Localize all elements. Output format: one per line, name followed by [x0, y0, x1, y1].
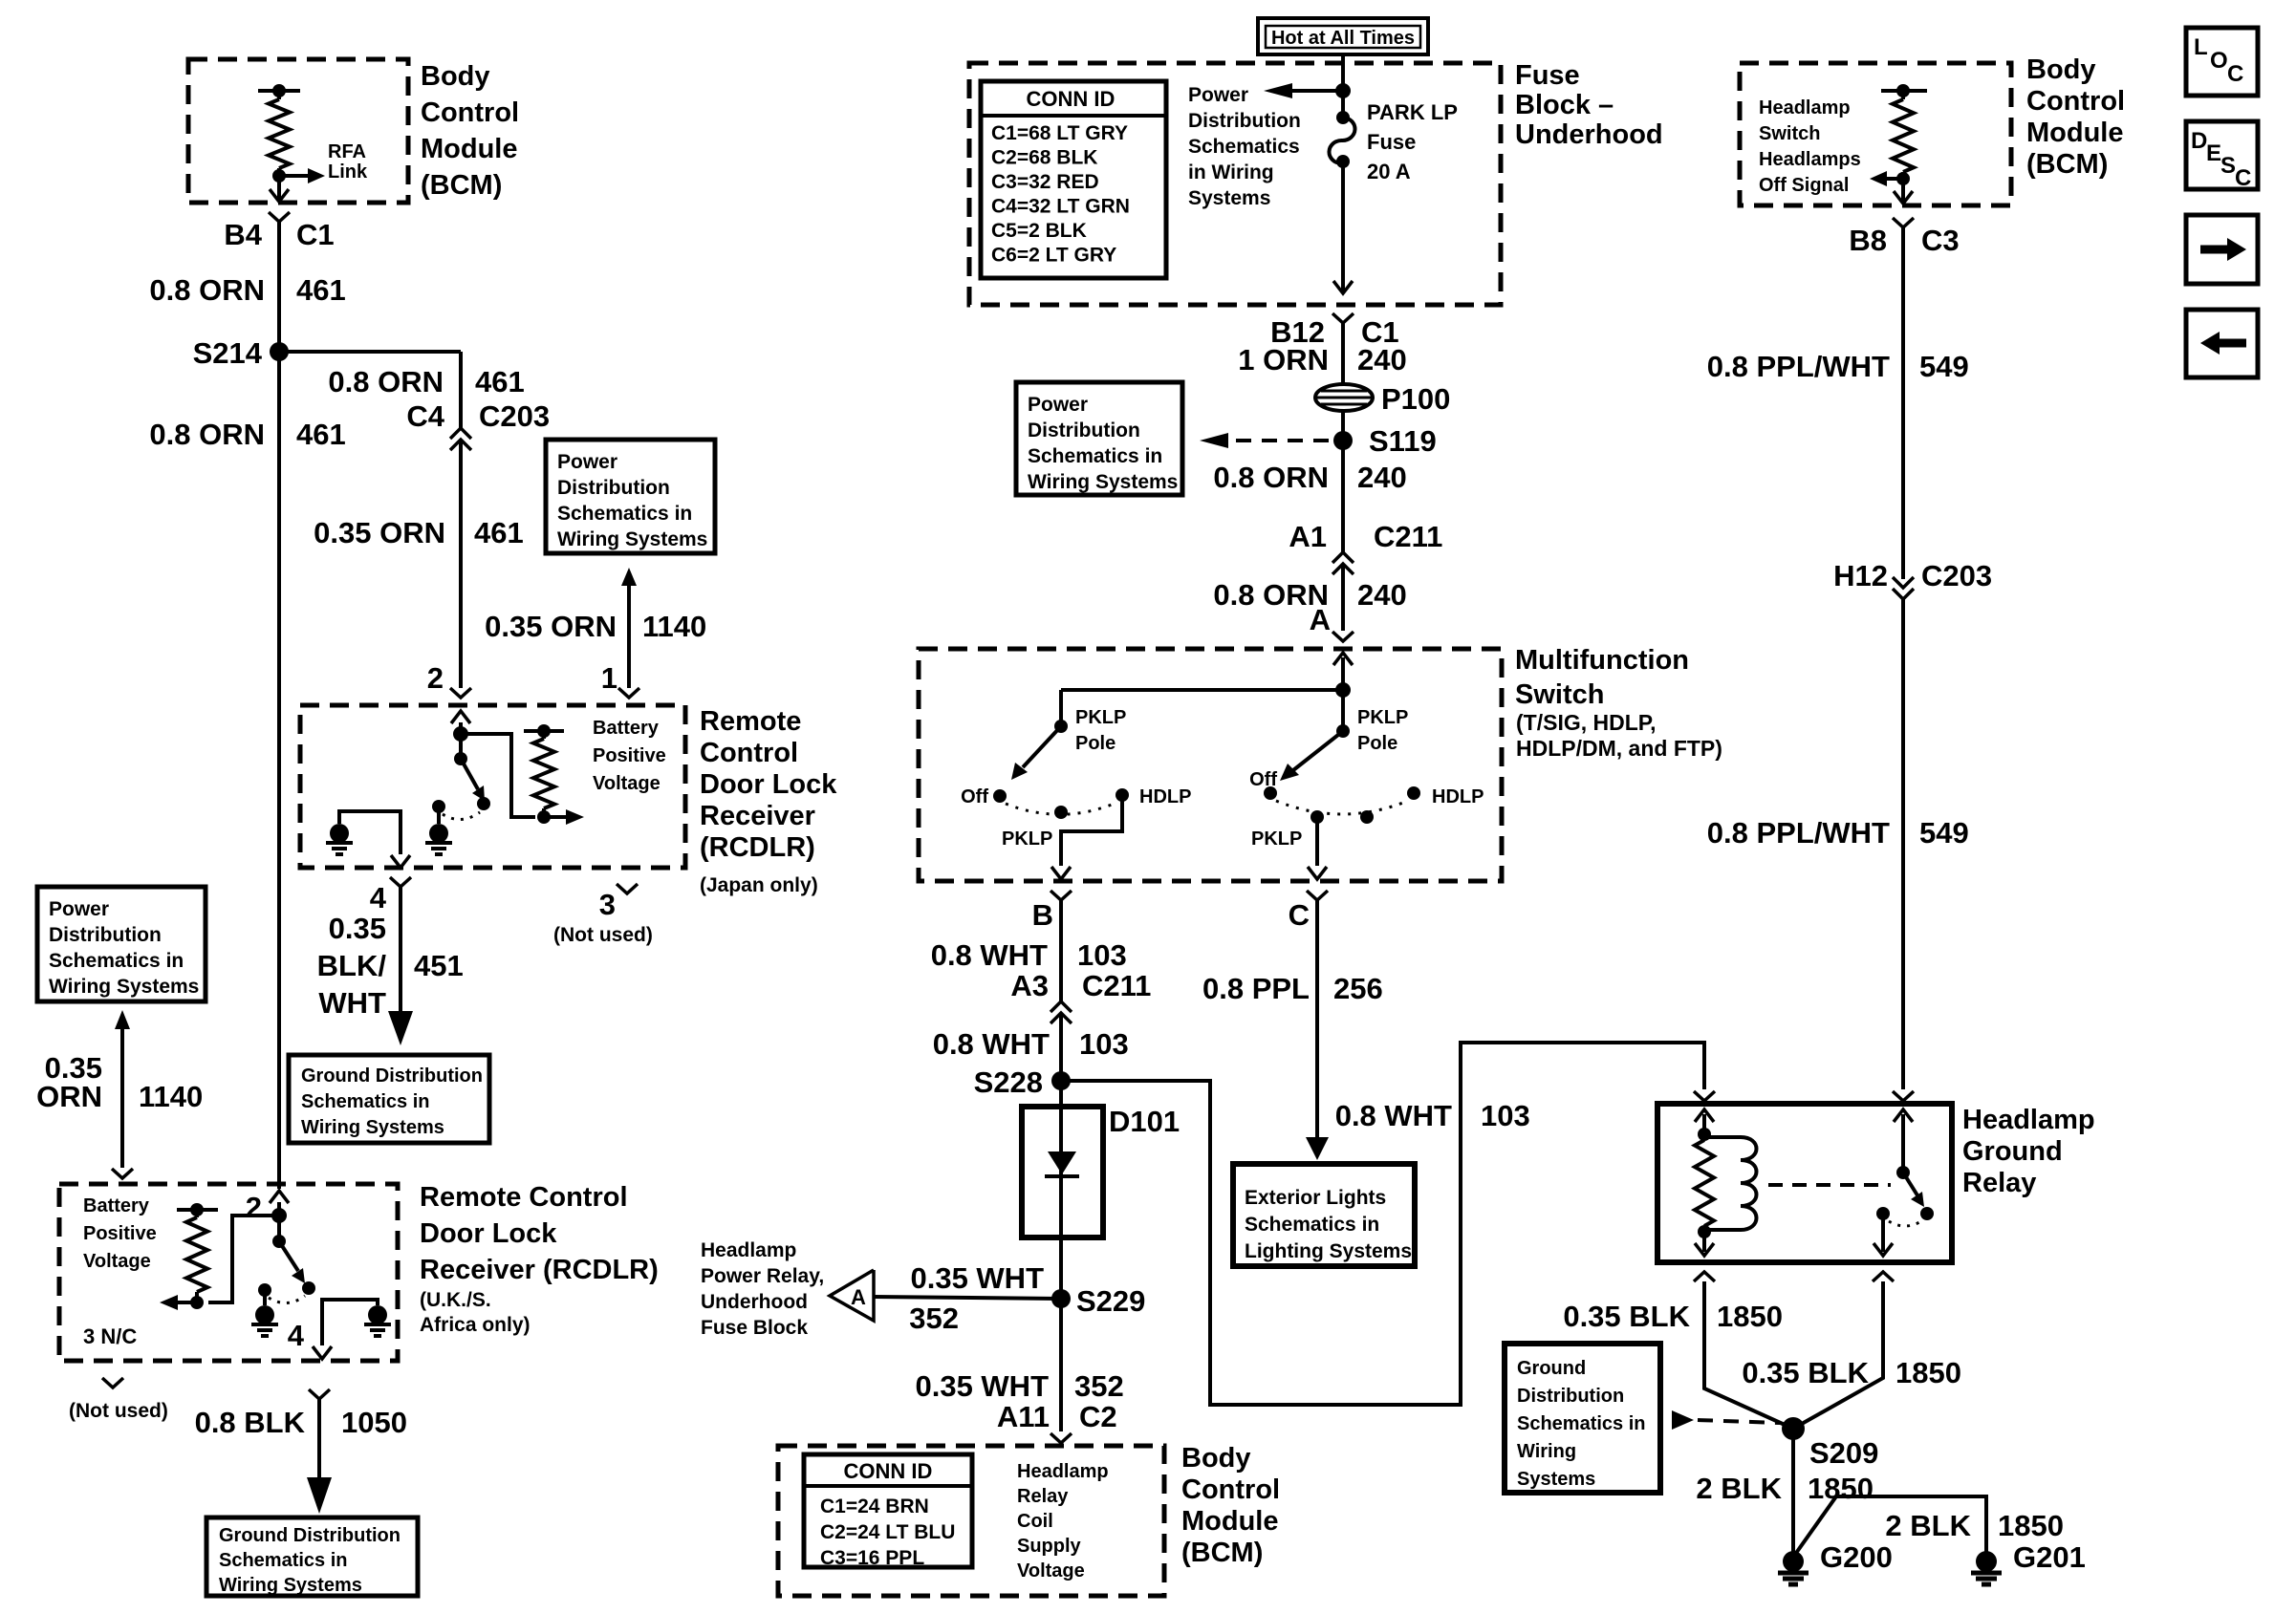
svg-text:C3=32 RED: C3=32 RED — [991, 171, 1099, 193]
arrow into ground note box (UK pin4) — [307, 1477, 332, 1514]
relay box: Headlamp Ground Relay — [1657, 1104, 1952, 1262]
node: RCDLR UK switch feed junction — [271, 1208, 287, 1223]
svg-text:0.8 PPL: 0.8 PPL — [1202, 972, 1310, 1005]
svg-text:0.8 ORN: 0.8 ORN — [149, 418, 265, 451]
svg-text:Power: Power — [1028, 394, 1088, 416]
arrow entry relay switch pin — [1894, 1109, 1913, 1122]
connector female at BCM A11/C2 — [1051, 1433, 1072, 1443]
svg-text:Wiring Systems: Wiring Systems — [49, 976, 199, 998]
contact: relay switch moving end — [1920, 1207, 1934, 1220]
node: multifunction feed junction — [1335, 682, 1351, 698]
svg-text:Distribution: Distribution — [557, 477, 670, 499]
svg-text:1850: 1850 — [1895, 1356, 1961, 1389]
node S119 splice — [1333, 431, 1353, 450]
svg-text:C6=2 LT GRY: C6=2 LT GRY — [991, 245, 1116, 267]
arrow into ground note box (Japan pin4) — [399, 887, 402, 1013]
contact mid travel (right) — [1360, 810, 1374, 824]
svg-text:C1: C1 — [296, 218, 335, 251]
wire: junction to resistor bottom rail — [461, 734, 535, 817]
svg-text:0.35 BLK: 0.35 BLK — [1563, 1300, 1690, 1333]
svg-text:Hot at All Times: Hot at All Times — [1271, 28, 1415, 49]
module box: Remote Control Door Lock Receiver RCDLR (Japan only) — [300, 705, 685, 868]
svg-text:Distribution: Distribution — [49, 924, 162, 946]
svg-text:G201: G201 — [2013, 1540, 2086, 1574]
svg-text:Distribution: Distribution — [1028, 420, 1140, 441]
svg-text:Coil: Coil — [1017, 1511, 1053, 1532]
svg-text:Lighting Systems: Lighting Systems — [1245, 1240, 1412, 1262]
svg-text:Link: Link — [328, 161, 368, 183]
arrow to power distribution (fuse block) — [1292, 89, 1343, 93]
arrow entry RCDLR UK pin 2 — [277, 1202, 281, 1214]
svg-text:Battery: Battery — [593, 718, 660, 739]
svg-text:CONN ID: CONN ID — [844, 1459, 933, 1483]
svg-text:C203: C203 — [1921, 559, 1992, 592]
svg-text:Module: Module — [421, 134, 518, 164]
svg-text:PKLP: PKLP — [1251, 829, 1302, 850]
battery positive voltage resistor (UK) — [177, 1208, 218, 1212]
svg-text:Headlamp: Headlamp — [1759, 97, 1851, 118]
svg-text:G200: G200 — [1820, 1540, 1893, 1574]
wire: bus drop to left pole — [1059, 690, 1063, 726]
svg-text:Body: Body — [421, 61, 490, 92]
module box: Remote Control Door Lock Receiver RCDLR (UK/S.Africa) — [59, 1184, 398, 1361]
svg-text:4: 4 — [370, 881, 387, 915]
RFA Link arrow — [279, 174, 308, 178]
svg-text:0.8 BLK: 0.8 BLK — [195, 1406, 306, 1439]
svg-text:1050: 1050 — [341, 1406, 407, 1439]
dotted travel arc (Japan switch) — [443, 812, 480, 820]
note box: Power Distribution Schematics in Wiring Systems (upper left) — [546, 440, 715, 553]
note box: Ground Distribution Schematics in Wiring Systems (bottom left) — [206, 1517, 418, 1596]
svg-text:20 A: 20 A — [1367, 160, 1411, 183]
wire: junction to resistor bottom rail (UK) — [208, 1216, 279, 1302]
svg-text:0.35 BLK: 0.35 BLK — [1742, 1356, 1869, 1389]
svg-text:Control: Control — [700, 738, 798, 768]
wire: fuse to B12 exit — [1341, 161, 1345, 291]
svg-text:Systems: Systems — [1517, 1469, 1595, 1490]
BCM right internal top rail — [1881, 89, 1927, 93]
contact with stem and ground (Japan) — [437, 804, 441, 824]
svg-text:Voltage: Voltage — [593, 773, 661, 794]
connector female at RCDLR Japan pin 4 — [390, 877, 411, 887]
node S214 splice — [270, 342, 289, 361]
arrow exit BCM pin B4 — [270, 189, 289, 202]
svg-text:Wiring Systems: Wiring Systems — [1028, 471, 1178, 493]
svg-text:Remote Control: Remote Control — [420, 1182, 628, 1213]
svg-text:1850: 1850 — [1808, 1472, 1874, 1505]
wire: S209 branch to G201 — [1794, 1496, 1986, 1556]
wire: 0.35 ORN 1140 from RCDLR Japan pin 1 — [627, 586, 631, 688]
wire: 0.8 PPL/WHT 549 to C203 — [1901, 227, 1905, 579]
svg-text:B8: B8 — [1849, 224, 1887, 257]
svg-text:C1=68 LT GRY: C1=68 LT GRY — [991, 122, 1128, 144]
contact: switch moving end (Japan) — [477, 797, 490, 810]
svg-text:(T/SIG, HDLP,: (T/SIG, HDLP, — [1516, 710, 1657, 735]
svg-text:S209: S209 — [1809, 1436, 1878, 1470]
contact HDLP (left) — [1116, 788, 1129, 802]
svg-text:C3=16 PPL: C3=16 PPL — [820, 1547, 924, 1569]
contact: switch moving end (UK) — [302, 1281, 315, 1295]
node: BCM right resistor bottom — [1896, 172, 1910, 185]
svg-text:in Wiring: in Wiring — [1188, 161, 1274, 183]
module box: Body Control Module (BCM) top-right — [1740, 63, 2011, 205]
svg-text:H12: H12 — [1833, 559, 1888, 592]
svg-text:Schematics in: Schematics in — [557, 503, 692, 525]
svg-text:Block –: Block – — [1515, 90, 1614, 120]
connector female at RCDLR UK unnamed pin — [112, 1169, 133, 1178]
svg-text:Underhood: Underhood — [701, 1291, 808, 1313]
diode D101 box — [1022, 1107, 1103, 1237]
switch arm to Off (left) — [1023, 726, 1061, 767]
svg-text:L: L — [2194, 34, 2208, 60]
legend box LOC — [2186, 28, 2258, 96]
svg-text:1850: 1850 — [1717, 1300, 1783, 1333]
node: BCM resistor bottom junction — [272, 169, 286, 183]
dotted travel arc (right switch) — [1276, 801, 1408, 814]
wire: 1 ORN 240 to P100 — [1341, 323, 1345, 384]
svg-text:Supply: Supply — [1017, 1536, 1082, 1557]
svg-text:Fuse: Fuse — [1515, 60, 1580, 91]
svg-text:(Not used): (Not used) — [553, 924, 653, 946]
svg-text:(BCM): (BCM) — [421, 170, 502, 201]
svg-text:461: 461 — [475, 365, 525, 398]
svg-text:Positive: Positive — [83, 1223, 157, 1244]
svg-text:0.8 ORN: 0.8 ORN — [328, 365, 444, 398]
svg-text:103: 103 — [1077, 938, 1127, 972]
svg-text:S: S — [2220, 153, 2236, 179]
svg-text:P100: P100 — [1381, 382, 1450, 416]
svg-text:HDLP/DM, and FTP): HDLP/DM, and FTP) — [1516, 736, 1722, 761]
node: relay coil bottom junction — [1698, 1225, 1711, 1238]
connector female at relay switch ground pin — [1873, 1272, 1894, 1281]
svg-text:Africa only): Africa only) — [420, 1314, 531, 1336]
wire: S228 through D101 to S229 — [1059, 1081, 1063, 1299]
svg-text:Off: Off — [961, 786, 988, 807]
svg-text:Switch: Switch — [1515, 679, 1604, 710]
svg-text:Ground: Ground — [1962, 1136, 2063, 1167]
wire: 0.35 BLK/WHT 451 to ground distribution — [399, 887, 402, 1000]
conn id table (BCM) — [804, 1454, 972, 1567]
svg-text:E: E — [2206, 140, 2221, 166]
svg-text:Module: Module — [2026, 118, 2124, 148]
svg-text:C211: C211 — [1082, 969, 1151, 1002]
svg-text:(BCM): (BCM) — [1181, 1538, 1263, 1568]
node S228 splice — [1051, 1071, 1071, 1090]
module box: Multifunction Switch — [919, 649, 1502, 881]
wire: 0.8 PPL 256 to exterior lights — [1315, 900, 1319, 1137]
connector female at fuse block B12/C1 — [1332, 313, 1354, 323]
node: switch pole (Japan) — [454, 752, 467, 765]
svg-text:Schematics in: Schematics in — [219, 1550, 348, 1571]
svg-text:A11: A11 — [997, 1400, 1050, 1433]
contact PKLP (right) — [1310, 810, 1324, 824]
relay switch arm — [1903, 1173, 1917, 1195]
svg-text:BLK/: BLK/ — [317, 949, 387, 982]
svg-text:D: D — [2191, 128, 2207, 154]
svg-text:Distribution: Distribution — [1188, 110, 1301, 132]
node: PKLP pole (right) — [1336, 724, 1350, 738]
svg-text:Headlamp: Headlamp — [1962, 1105, 2095, 1135]
ground symbol (Japan left contact) — [429, 824, 448, 843]
svg-text:103: 103 — [1079, 1027, 1129, 1061]
svg-text:549: 549 — [1919, 816, 1969, 850]
svg-text:4: 4 — [288, 1319, 305, 1352]
svg-text:Relay: Relay — [1017, 1486, 1069, 1507]
svg-text:S229: S229 — [1076, 1284, 1145, 1318]
svg-text:Headlamp: Headlamp — [701, 1239, 796, 1261]
svg-text:0.35: 0.35 — [329, 912, 386, 945]
svg-text:549: 549 — [1919, 350, 1969, 383]
svg-text:Schematics in: Schematics in — [1028, 445, 1162, 467]
connector female at relay coil pin — [1694, 1091, 1715, 1101]
contact Off (right) — [1264, 786, 1277, 800]
ground G200 — [1783, 1551, 1804, 1572]
connector female at RCDLR Japan pin 1 — [618, 688, 639, 698]
wire: 0.8 WHT 103 from B to C211 — [1059, 900, 1063, 1001]
svg-text:Systems: Systems — [1188, 187, 1270, 209]
switch arm (Japan) — [461, 759, 478, 789]
svg-text:C: C — [1289, 898, 1310, 932]
svg-text:Headlamp: Headlamp — [1017, 1461, 1109, 1482]
svg-text:1 ORN: 1 ORN — [1238, 343, 1329, 377]
svg-text:2: 2 — [246, 1191, 262, 1224]
node: relay switch pivot — [1896, 1166, 1910, 1179]
wire: relay coil ground exit — [1702, 1232, 1706, 1252]
svg-text:C2=68 BLK: C2=68 BLK — [991, 147, 1097, 169]
svg-text:Relay: Relay — [1962, 1168, 2036, 1198]
module box: Body Control Module (BCM) bottom — [778, 1446, 1164, 1596]
svg-text:O: O — [2210, 48, 2228, 74]
svg-text:A: A — [1310, 603, 1331, 636]
svg-text:Battery: Battery — [83, 1195, 150, 1216]
svg-text:B4: B4 — [224, 218, 262, 251]
arrow: battery positive voltage output (Japan) — [544, 815, 566, 819]
svg-text:(BCM): (BCM) — [2026, 149, 2108, 180]
svg-text:Body: Body — [1181, 1443, 1251, 1474]
svg-text:Exterior Lights: Exterior Lights — [1245, 1187, 1386, 1209]
svg-text:Schematics in: Schematics in — [1245, 1214, 1379, 1236]
svg-text:(RCDLR): (RCDLR) — [700, 832, 815, 863]
svg-text:Power Relay,: Power Relay, — [701, 1265, 824, 1287]
off signal arrow — [1887, 177, 1903, 181]
svg-text:Pole: Pole — [1357, 733, 1397, 754]
switch pole wire (Japan) — [459, 734, 463, 759]
svg-text:461: 461 — [296, 418, 346, 451]
svg-text:C2=24 LT BLU: C2=24 LT BLU — [820, 1521, 955, 1543]
connector female at relay switch pin — [1893, 1091, 1914, 1101]
module box: Body Control Module (BCM) top-left — [188, 59, 408, 203]
svg-text:A: A — [851, 1285, 866, 1309]
wire: BCM pin exit — [277, 176, 281, 201]
svg-text:Off: Off — [1249, 769, 1277, 790]
wire: relay coil pin to S209 — [1704, 1281, 1793, 1429]
svg-text:Fuse Block: Fuse Block — [701, 1317, 808, 1339]
connector C203 in-line (left) — [450, 428, 471, 439]
wire: S214 down to RCDLR UK pin 2 — [277, 352, 281, 1189]
svg-text:C4: C4 — [406, 399, 444, 433]
svg-text:240: 240 — [1357, 343, 1407, 377]
ground symbol (UK pin4 side) — [368, 1305, 387, 1324]
connector female RCDLR Japan pin 3 not used — [617, 884, 638, 893]
ground G201 — [1976, 1551, 1997, 1572]
relay coil — [1704, 1135, 1741, 1139]
svg-text:Multifunction: Multifunction — [1515, 645, 1689, 676]
node S209 splice — [1782, 1417, 1805, 1440]
svg-text:1850: 1850 — [1998, 1509, 2064, 1542]
svg-text:Wiring Systems: Wiring Systems — [301, 1117, 444, 1138]
battery positive voltage resistor (Japan) — [524, 729, 564, 733]
legend box arrow left — [2186, 310, 2258, 377]
module box: Fuse Block - Underhood — [969, 63, 1501, 305]
contact HDLP (right) — [1407, 786, 1420, 800]
wire: S229 to BCM A11 — [1059, 1299, 1063, 1431]
svg-text:0.8 WHT: 0.8 WHT — [1335, 1099, 1452, 1132]
note box: Ground Distribution Schematics in Wiring Systems (relay) — [1505, 1344, 1660, 1493]
wire: branch S214 to C4 drop — [279, 350, 461, 354]
legend box arrow right — [2186, 215, 2258, 284]
svg-text:461: 461 — [296, 273, 346, 307]
svg-text:0.8 WHT: 0.8 WHT — [931, 938, 1048, 972]
connector female at BCM B4/C1 — [269, 212, 290, 222]
svg-text:HDLP: HDLP — [1432, 786, 1484, 807]
svg-text:Schematics in: Schematics in — [1517, 1413, 1646, 1434]
arrow entry multifunction pin A — [1333, 653, 1353, 665]
svg-text:0.35 ORN: 0.35 ORN — [314, 516, 445, 549]
wire: 0.35 ORN 461 to RCDLR Japan pin 2 — [459, 441, 463, 688]
svg-text:Module: Module — [1181, 1506, 1279, 1537]
resistor inside right BCM — [1901, 91, 1905, 99]
svg-text:Wiring Systems: Wiring Systems — [219, 1575, 362, 1596]
svg-text:S228: S228 — [974, 1065, 1043, 1099]
resistor inside left BCM — [277, 91, 281, 99]
wire: C203 to headlamp ground relay — [1901, 599, 1905, 1089]
contact Off (left) — [993, 789, 1007, 803]
svg-text:RFA: RFA — [328, 141, 366, 162]
svg-text:Ground Distribution: Ground Distribution — [301, 1065, 483, 1087]
wire: 0.8 ORN 461 from BCM to S214 — [277, 222, 281, 352]
svg-text:Headlamps: Headlamps — [1759, 149, 1861, 170]
svg-text:C2: C2 — [1079, 1400, 1117, 1433]
wire: S228 branch to headlamp ground relay — [1061, 1043, 1704, 1405]
svg-text:PKLP: PKLP — [1002, 829, 1052, 850]
wire: S119 to C211 — [1341, 441, 1345, 552]
wire: 0.35 ORN 1140 up to note box — [120, 1029, 124, 1168]
svg-text:0.35 WHT: 0.35 WHT — [910, 1261, 1044, 1295]
connector C211 in-line (middle) — [1332, 552, 1354, 563]
node: BCM resistor top junction — [272, 84, 286, 97]
node S229 splice — [1051, 1289, 1071, 1308]
svg-text:Schematics: Schematics — [1188, 136, 1300, 158]
svg-text:PKLP: PKLP — [1357, 707, 1408, 728]
node: PKLP pole (left) — [1054, 720, 1068, 733]
svg-text:Control: Control — [2026, 86, 2125, 117]
node: fuse feed junction — [1335, 83, 1351, 98]
svg-text:Schematics in: Schematics in — [301, 1091, 430, 1112]
fuse PARK LP 20A — [1336, 111, 1350, 124]
svg-text:Underhood: Underhood — [1515, 119, 1663, 150]
svg-text:C1=24 BRN: C1=24 BRN — [820, 1496, 929, 1517]
wire: C211 to multifunction switch — [1341, 566, 1345, 631]
svg-text:Door Lock: Door Lock — [420, 1218, 557, 1249]
svg-text:0.8 PPL/WHT: 0.8 PPL/WHT — [1707, 816, 1890, 850]
svg-text:2: 2 — [427, 661, 444, 695]
svg-text:C4=32 LT GRN: C4=32 LT GRN — [991, 196, 1130, 218]
wire: S209 to G200 — [1791, 1429, 1795, 1554]
svg-text:S119: S119 — [1369, 424, 1437, 458]
connector female at relay coil ground pin — [1694, 1272, 1715, 1281]
svg-text:Positive: Positive — [593, 745, 666, 766]
svg-text:Body: Body — [2026, 54, 2096, 85]
svg-text:0.8 ORN: 0.8 ORN — [149, 273, 265, 307]
arrow exit BCM pin B8 — [1894, 191, 1913, 204]
svg-text:HDLP: HDLP — [1139, 786, 1191, 807]
svg-text:Receiver (RCDLR): Receiver (RCDLR) — [420, 1255, 659, 1285]
svg-text:Fuse: Fuse — [1367, 130, 1416, 154]
arrow entry relay coil pin — [1695, 1109, 1714, 1122]
svg-text:PARK LP: PARK LP — [1367, 100, 1458, 124]
node: BCM right resistor top — [1896, 84, 1910, 97]
arrow exit multifunction pin C — [1308, 867, 1327, 879]
svg-text:3 N/C: 3 N/C — [83, 1324, 137, 1348]
arrow exit relay coil pin — [1695, 1243, 1714, 1256]
svg-text:B: B — [1032, 898, 1053, 932]
arrow exit multifunction pin B — [1051, 867, 1071, 879]
arrow exit fuse block B12 — [1333, 281, 1353, 293]
BCM internal top rail — [258, 89, 300, 93]
svg-text:461: 461 — [474, 516, 524, 549]
svg-text:0.35 WHT: 0.35 WHT — [915, 1369, 1049, 1403]
svg-text:103: 103 — [1481, 1099, 1530, 1132]
wire: C211 to S228 — [1059, 1015, 1063, 1081]
svg-text:0.8 PPL/WHT: 0.8 PPL/WHT — [1707, 350, 1890, 383]
dotted travel arc (UK switch) — [269, 1296, 305, 1303]
contact: relay switch fixed — [1876, 1207, 1890, 1220]
svg-text:2 BLK: 2 BLK — [1696, 1472, 1782, 1505]
node: switch pole (UK) — [272, 1235, 286, 1248]
connector female RCDLR UK pin 3 not used — [102, 1378, 123, 1388]
contact PKLP (left) — [1054, 806, 1068, 819]
svg-text:C211: C211 — [1374, 520, 1442, 553]
offpage triangle A (headlamp power relay) — [830, 1270, 874, 1321]
wire: PKLP contact to C exit — [1315, 817, 1319, 866]
wire: relay switch pin to S209 — [1793, 1281, 1883, 1429]
svg-text:C: C — [2227, 61, 2243, 87]
svg-text:PKLP: PKLP — [1075, 707, 1126, 728]
svg-text:A1: A1 — [1289, 520, 1327, 553]
svg-text:1: 1 — [601, 661, 617, 695]
dashed pointer from note box to S209 — [1672, 1410, 1694, 1430]
wire: internal bus to left switch — [1061, 688, 1343, 692]
ground symbol (UK left contact) — [255, 1305, 274, 1324]
svg-text:Ground Distribution: Ground Distribution — [219, 1525, 401, 1546]
svg-text:Remote: Remote — [700, 706, 801, 737]
svg-text:CONN ID: CONN ID — [1027, 87, 1116, 111]
arrow into exterior lights box — [1306, 1137, 1329, 1160]
svg-text:1140: 1140 — [139, 1080, 203, 1113]
svg-text:Schematics in: Schematics in — [49, 950, 184, 972]
svg-text:352: 352 — [1074, 1369, 1124, 1403]
note box: Power Distribution Schematics in Wiring Systems (middle) — [1016, 382, 1182, 495]
wire: relay fixed contact to ground exit — [1881, 1214, 1885, 1252]
svg-text:Distribution: Distribution — [1517, 1386, 1624, 1407]
relay resistor — [1695, 1140, 1714, 1226]
arrow into far-left note box — [115, 1010, 130, 1029]
svg-text:Pole: Pole — [1075, 733, 1116, 754]
switch arm (UK) — [279, 1241, 298, 1271]
contact with stem and ground (UK) — [263, 1288, 267, 1305]
svg-text:Off Signal: Off Signal — [1759, 175, 1849, 196]
wire: S229 to A callout — [874, 1297, 1061, 1299]
